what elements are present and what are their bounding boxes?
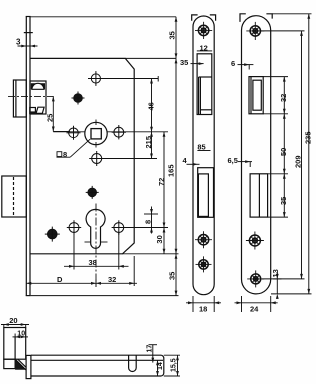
extension verticals from cylinder flank holes — [74, 233, 119, 270]
svg-text:35: 35 — [167, 272, 176, 280]
svg-text:235: 235 — [304, 131, 313, 144]
svg-text:32: 32 — [279, 94, 288, 102]
svg-text:25: 25 — [46, 114, 55, 122]
right plate lower screw holes — [246, 232, 264, 288]
callout square-8 for follower — [57, 139, 91, 157]
middle plate lower screw holes — [195, 231, 212, 272]
dimension 209 (screw hole spacing) — [300, 31, 303, 279]
dimension 4 (cutout offset, middle plate) — [187, 163, 200, 166]
bottom view latch head box — [4, 328, 26, 360]
svg-text:50: 50 — [279, 148, 288, 156]
svg-text:85: 85 — [197, 143, 205, 152]
fixing hole X-filled bottom-left (52.3,234.1) — [45, 227, 60, 242]
svg-text:13: 13 — [271, 269, 280, 277]
middle plate latch cutout — [197, 54, 212, 115]
svg-text:20: 20 — [9, 316, 17, 325]
svg-text:215: 215 — [144, 136, 153, 149]
lock case outline — [30, 58, 134, 253]
svg-text:72: 72 — [157, 178, 166, 186]
dimension 13 (bottom hole to tip, right plate) — [273, 272, 282, 299]
faceplate (main view, 3mm strip) — [24, 17, 33, 296]
extension line top hole to 46-line — [88, 78, 158, 80]
svg-text:6,5: 6,5 — [228, 156, 238, 165]
right faceplate outline (24 wide) — [242, 16, 271, 294]
handle hub circle with 8mm square follower — [85, 120, 107, 148]
dimension 35 leader (middle plate) — [191, 62, 204, 65]
middle plate deadbolt cutout — [198, 168, 214, 218]
right plate latch cutout with bolt — [249, 77, 263, 114]
screw hole below hub (96.7,158.5) — [89, 151, 104, 166]
svg-text:38: 38 — [89, 258, 97, 267]
bottom view case inner top line — [31, 359, 163, 361]
latch centerline + dimension 25 — [8, 96, 70, 132]
dimension 12 (latch cutout width, middle plate) — [197, 50, 212, 52]
svg-text:30: 30 — [155, 235, 164, 243]
svg-text:8: 8 — [144, 220, 153, 224]
bottom view lock case body — [31, 355, 164, 376]
hub side hole right (118.8,132) — [112, 125, 126, 139]
middle faceplate outline (18 wide) — [193, 16, 214, 295]
extension line case bottom to right — [123, 253, 179, 255]
fixing hole X-filled (92.2,192.4) — [86, 186, 99, 199]
svg-text:6: 6 — [231, 59, 235, 68]
bottom view slot — [129, 355, 137, 371]
dimension 235 (right plate length) — [307, 14, 310, 294]
middle plate top screw hole — [195, 22, 212, 39]
extension line top screw hole to 209-line — [261, 30, 305, 32]
right plate deadbolt cutout — [250, 174, 268, 217]
corner bracket top-left (right plate) — [240, 14, 246, 22]
svg-text:165: 165 — [167, 164, 176, 177]
dimension 38 (flank holes spacing) — [64, 265, 129, 268]
dimension 85 (deadbolt cutout width, middle plate) — [197, 150, 210, 152]
svg-text:24: 24 — [250, 305, 259, 314]
dimension 35 top (faceplate top to case top) — [175, 17, 178, 59]
dimension D (backset) and 32 — [26, 280, 137, 288]
dimension 32 (right plate latch cutout height) — [283, 77, 286, 114]
dimension 18 (middle plate width) — [186, 296, 221, 312]
extension vertical case right edge to D-line — [133, 256, 135, 286]
bottom view faceplate bar — [26, 355, 31, 378]
svg-text:35: 35 — [279, 197, 288, 205]
corner bracket top-right (right plate) — [266, 14, 272, 19]
svg-text:12: 12 — [200, 44, 208, 53]
svg-text:D: D — [57, 275, 63, 284]
dimension 35 (right plate lower cutout height) — [283, 174, 286, 217]
svg-text:46: 46 — [147, 102, 156, 110]
hub side hole left (73.5,132.8) — [67, 126, 81, 140]
dimension 10 (bottom view) — [13, 334, 29, 339]
svg-text:35: 35 — [167, 31, 176, 39]
extension tick y=214 for dim 8 — [144, 213, 158, 215]
dimension 50 (cutout spacing right plate) — [283, 114, 286, 174]
svg-text:35: 35 — [180, 58, 188, 67]
screw hole top (95.9,78.5) — [89, 71, 104, 86]
deadbolt head (thrown, outside faceplate) — [2, 176, 27, 217]
dimension 3 (faceplate thickness) — [18, 45, 38, 48]
svg-text:3: 3 — [16, 38, 21, 47]
dimension 20 (bottom view head depth) — [1, 323, 29, 327]
dimension 165 (case height) — [175, 58, 178, 253]
extension line right plate bottom tip to 235-line — [271, 293, 312, 295]
dimension 215 (hub to below-hub hole) — [150, 132, 153, 159]
svg-text:8: 8 — [63, 150, 67, 159]
svg-text:14: 14 — [157, 362, 164, 370]
corner bracket top-left (middle plate) — [192, 15, 198, 21]
svg-text:10: 10 — [17, 331, 25, 338]
corner bracket top-right (middle plate) — [210, 15, 216, 21]
dimension 72 (hub to cylinder) — [163, 132, 166, 228]
dimension 17 (bottom view) — [149, 345, 158, 363]
dimension 14 (bottom view inner height) — [156, 360, 159, 376]
cylinder flank hole right (118.8,227.5) — [112, 220, 126, 234]
cylinder centerline — [95, 204, 97, 287]
svg-text:18: 18 — [199, 305, 207, 314]
extension lines body edges to 15,5-line — [164, 355, 180, 376]
extension line right plate top corner to 235-line — [272, 13, 311, 15]
right plate top screw hole — [246, 22, 264, 40]
extension line cylinder flank row y=227.5 — [126, 227, 168, 229]
svg-text:32: 32 — [108, 275, 116, 284]
svg-text:209: 209 — [293, 155, 302, 168]
dimension 46 (top hole to hub) — [150, 79, 153, 132]
bottom view latch bevel (black) — [15, 359, 26, 370]
extension line bottom screw hole to 209-line — [262, 278, 305, 280]
euro profile cylinder hole — [85, 209, 108, 248]
latch bolt body (inside case) — [30, 81, 46, 114]
fixing hole X-filled (78,98) — [72, 92, 85, 105]
svg-text:17: 17 — [146, 345, 153, 353]
extension line case top to 165-line — [125, 57, 176, 59]
dimension 35 bottom (case bottom to faceplate bottom) — [175, 254, 178, 296]
dimension 15,5 (bottom view case height) — [176, 355, 179, 376]
dimension 6,5 leader (right plate lower cutout offset) — [238, 160, 252, 167]
cylinder flank hole left (74,227.5) — [67, 220, 81, 234]
extension line faceplate top to 35-line — [30, 16, 176, 18]
dimension 30 (cylinder to case bottom) — [163, 228, 166, 254]
extension lines right plate cutouts to chain — [263, 77, 288, 218]
dimension 8 (cylinder top offset) — [150, 207, 153, 234]
bottom view latch lower-left block — [4, 359, 15, 368]
extension line below-hub hole to 215-end — [104, 158, 157, 160]
dimension 24 (right plate width) — [235, 296, 278, 312]
latch bolt head (outside faceplate) — [13, 80, 26, 117]
extension line faceplate bottom to 35-line — [31, 295, 179, 297]
bottom view latch inner line — [14, 337, 16, 359]
svg-text:15,5: 15,5 — [171, 358, 178, 372]
dimension 6 leader (right plate cutout offset) — [238, 63, 254, 69]
extension line hub row y=132 — [53, 131, 168, 133]
